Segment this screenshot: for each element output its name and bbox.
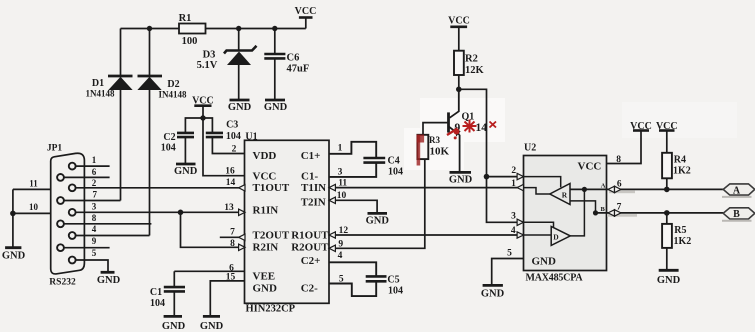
wire: U1 pin 4 to C5 top (329, 251, 376, 276)
wire: U1 pin 1 to C4 top (329, 142, 376, 157)
node junction on rail at D2 (147, 26, 152, 31)
svg-text:T1OUT: T1OUT (253, 182, 290, 194)
svg-text:D: D (553, 233, 559, 242)
wire: JP1 pin 6 stub (64, 167, 110, 178)
svg-text:VCC: VCC (192, 95, 214, 106)
svg-text:GND: GND (481, 289, 505, 300)
svg-text:C1+: C1+ (301, 150, 321, 162)
ground below U2 pin 5 (481, 285, 505, 299)
svg-text:GND: GND (657, 275, 681, 286)
svg-text:9: 9 (92, 236, 97, 246)
svg-text:R2OUT: R2OUT (291, 242, 329, 254)
zener diode D3 5.1V (197, 29, 257, 100)
svg-text:14: 14 (476, 122, 488, 134)
resistor R1 (179, 13, 206, 47)
svg-text:5.1V: 5.1V (197, 60, 218, 71)
capacitor C5 104 (366, 275, 403, 297)
wire: U1 R2OUT pin 9 to R3 (329, 159, 425, 249)
svg-text:12K: 12K (465, 65, 485, 76)
wire: JP1 pin 7 to diode D1 (64, 190, 121, 201)
wire: JP1 pin 8 stub (64, 213, 151, 224)
VCC symbol above C2/C3 (192, 95, 214, 118)
pin 8 arrow R2IN (239, 244, 245, 250)
svg-text:GND: GND (97, 275, 121, 286)
svg-text:B: B (601, 206, 606, 213)
svg-text:C5: C5 (387, 275, 399, 286)
svg-text:R2: R2 (465, 54, 478, 65)
wire: U2 RE pin 2 to R enable (524, 177, 561, 188)
svg-text:C2+: C2+ (301, 255, 321, 267)
svg-text:T1IN: T1IN (301, 182, 326, 194)
svg-text:GND: GND (162, 321, 186, 332)
wire: JP1 shell pin 10 (13, 202, 51, 213)
svg-text:GND: GND (174, 166, 198, 177)
wire: U1 VEE pin 6 to C1 (174, 264, 244, 274)
wire: R3 top to Q1 base (423, 123, 447, 135)
U2 pin 2 arrow (517, 173, 523, 179)
svg-text:13: 13 (224, 203, 234, 213)
terminal B (722, 208, 755, 221)
svg-text:104: 104 (388, 167, 403, 178)
U1 pin labels left column (253, 150, 290, 295)
wire: R lower input to B line (570, 201, 596, 213)
svg-text:C1-: C1- (301, 171, 318, 183)
wire: JP1 pin 1 stub (76, 155, 110, 166)
svg-text:5: 5 (507, 249, 512, 259)
svg-text:4: 4 (92, 224, 97, 234)
svg-text:VEE: VEE (253, 271, 276, 283)
wire: VCC node to U1 pin 16 (203, 118, 245, 176)
svg-text:C2-: C2- (301, 283, 318, 295)
wire: U1 T1IN pin 11 to U2 RO pin 1 (329, 179, 524, 189)
node junction B line and R5 (664, 210, 670, 216)
svg-text:11: 11 (29, 178, 38, 188)
wire: top power rail from D1 to VCC corner (121, 18, 306, 29)
svg-text:1: 1 (92, 155, 97, 165)
wire: U1 GND pin 15 to ground (210, 273, 244, 316)
svg-text:1N4148: 1N4148 (86, 89, 115, 99)
svg-text:100: 100 (182, 36, 198, 47)
wire: R1IN node down to U1 R2IN pin 8 (181, 212, 240, 247)
svg-text:15: 15 (226, 273, 236, 283)
ground below R5 (657, 270, 681, 286)
capacitor C2 104 (161, 132, 194, 164)
wire: U2 DE pin 3 to D enable (524, 222, 554, 227)
U2 pin 1 label and arrow (511, 179, 523, 191)
wire: B line from pin 7 to terminal B (596, 212, 724, 214)
svg-text:C6: C6 (287, 53, 300, 64)
svg-text:GND: GND (366, 216, 390, 227)
terminal A (722, 184, 755, 197)
ground below Q1 emitter (449, 172, 473, 185)
node junction A line and D output (582, 187, 587, 192)
svg-text:GND: GND (200, 321, 224, 332)
wire: D output up to A line (570, 189, 584, 236)
svg-text:VCC: VCC (295, 6, 317, 17)
svg-text:10: 10 (337, 191, 347, 201)
ground below D3 (228, 100, 252, 113)
svg-text:104: 104 (226, 131, 241, 142)
svg-text:4: 4 (338, 251, 343, 261)
resistor R5 1K2 (662, 213, 691, 248)
svg-text:GND: GND (2, 251, 26, 262)
svg-text:14: 14 (226, 178, 236, 188)
ground below U1 pin 15 (200, 316, 224, 332)
VCC symbol above U2 pin 8 (630, 121, 652, 132)
diode D1 1N4148 (86, 29, 133, 201)
node junction shell wires (10, 211, 16, 217)
svg-text:5: 5 (339, 275, 344, 285)
svg-text:D2: D2 (167, 79, 179, 90)
wire: JP1 shell pin 11 (13, 178, 51, 189)
pin 13 arrow R1IN (239, 209, 245, 215)
wire: U1 T2IN pin 10 to ground (329, 191, 377, 213)
wire: U2 GND pin 5 to ground (492, 249, 524, 285)
svg-text:GND: GND (253, 283, 278, 295)
svg-text:3: 3 (511, 212, 516, 222)
U2 pin 7 label and arrow (607, 203, 637, 217)
wire: U2 DI pin 4 to D input (524, 234, 552, 236)
svg-text:D3: D3 (203, 50, 216, 61)
JP1 pin 8 circle (57, 220, 64, 227)
svg-text:R5: R5 (674, 225, 686, 236)
svg-text:R1: R1 (179, 13, 192, 24)
JP1 pin 1 circle (69, 163, 76, 170)
node junction on rail at C6 (272, 26, 277, 31)
svg-text:GND: GND (532, 256, 557, 268)
svg-text:GND: GND (264, 102, 288, 113)
svg-text:12: 12 (339, 226, 349, 236)
red annotation 9014 over Q1 (447, 120, 496, 140)
svg-text:C2: C2 (163, 132, 175, 143)
wire: R4 to A line (666, 178, 668, 189)
svg-text:U1: U1 (245, 132, 257, 143)
svg-text:VCC: VCC (253, 171, 277, 183)
ground below C2 (174, 164, 198, 177)
svg-text:2: 2 (232, 145, 237, 155)
resistor R4 1K2 (662, 153, 691, 179)
svg-text:8: 8 (616, 155, 621, 165)
svg-text:R3: R3 (429, 135, 440, 145)
node junction enable to RE pin 2 (484, 174, 490, 180)
wire: JP1 pin 2 to U1 T1OUT pin 14 (76, 178, 240, 188)
resistor R2 12K (454, 51, 485, 76)
svg-text:8: 8 (230, 239, 235, 249)
wire: VCC node to C3 (203, 118, 212, 133)
wire: JP1 pin 3 to U1 R1IN pin 13 (76, 202, 239, 213)
capacitor C6 47uF (264, 29, 309, 100)
svg-text:R2IN: R2IN (253, 242, 279, 254)
svg-text:9: 9 (338, 239, 343, 249)
U1 pin labels right column (291, 150, 329, 295)
wire: U2 VCC pin 8 to VCC (607, 131, 642, 165)
svg-text:RS232: RS232 (49, 278, 76, 288)
JP1 pin 4 circle (69, 232, 76, 239)
U2 pin 6 label and arrow (608, 180, 635, 194)
svg-text:VDD: VDD (253, 150, 277, 162)
op IC U1 HIN232CP box (245, 140, 330, 303)
svg-text:Q1: Q1 (462, 112, 475, 123)
wire: R2 bottom to collector node (458, 75, 460, 89)
IC U2 MAX485CPA box (524, 156, 607, 271)
VCC symbol above R2 (448, 16, 470, 51)
svg-text:4: 4 (511, 226, 516, 236)
VCC symbol above R4 (656, 121, 678, 153)
U2 pin 3 label and arrow (511, 212, 523, 226)
svg-text:VCC: VCC (448, 16, 470, 27)
pin 14 arrow T1OUT (239, 185, 245, 191)
ground left of JP1 (2, 248, 26, 262)
node junction on R1IN wire (178, 210, 184, 216)
svg-text:16: 16 (225, 166, 235, 176)
capacitor C3 104 (206, 120, 241, 143)
JP1 pin 7 circle (57, 197, 64, 204)
svg-text:IN4148: IN4148 (158, 90, 187, 100)
svg-text:104: 104 (150, 298, 165, 309)
diode D2 1N4148 (138, 29, 187, 236)
wire: shell pins down to ground (12, 189, 14, 247)
wire: C3 to U1 pin 2 VDD (212, 137, 244, 153)
svg-text:HIN232CP: HIN232CP (246, 304, 296, 315)
receiver buffer R inside U2 (550, 184, 570, 205)
pin 7 arrow T2OUT (239, 234, 245, 240)
ground below U1 pin 10 (366, 213, 390, 226)
node junction on rail at D3 (236, 26, 241, 31)
svg-text:VCC: VCC (630, 121, 652, 132)
svg-text:11: 11 (338, 179, 347, 189)
wire: JP1 pin 9 stub (64, 236, 110, 248)
svg-text:T2OUT: T2OUT (253, 230, 290, 242)
wire: JP1 pin 5 to ground (76, 248, 108, 272)
wire: JP1 pin 4 to diode D2 (76, 224, 150, 235)
svg-text:7: 7 (230, 228, 235, 238)
wire: C4 bottom to U1 pin 3 (329, 163, 376, 178)
svg-text:6: 6 (92, 167, 97, 177)
svg-text:C4: C4 (388, 156, 400, 167)
wire: U1 pin 5 to C5 bottom (329, 275, 376, 297)
svg-text:2: 2 (92, 178, 97, 188)
svg-text:A: A (601, 182, 606, 189)
transistor Q1 (449, 89, 475, 172)
ground below C6 (264, 100, 288, 113)
node junction R2 collector (456, 87, 462, 93)
svg-text:T2IN: T2IN (301, 197, 326, 209)
svg-text:A: A (733, 185, 741, 196)
connector JP1 DB9 outline (47, 144, 85, 288)
svg-text:10K: 10K (430, 146, 450, 158)
svg-text:VCC: VCC (578, 161, 602, 173)
svg-text:R4: R4 (674, 155, 686, 166)
svg-text:3: 3 (338, 167, 343, 177)
capacitor C1 104 (150, 271, 185, 316)
svg-text:10: 10 (29, 202, 39, 212)
svg-text:U2: U2 (524, 143, 536, 154)
capacitor C4 104 (363, 156, 403, 178)
pin 9 arrow (329, 245, 335, 251)
svg-text:1K2: 1K2 (674, 236, 692, 247)
svg-text:JP1: JP1 (47, 144, 63, 154)
svg-text:C1: C1 (150, 287, 162, 298)
JP1 pin 9 circle (57, 244, 64, 251)
pin 11 arrow (329, 184, 335, 190)
JP1 pin 3 circle (69, 209, 76, 216)
resistor R3 10K (417, 135, 449, 159)
svg-text:VCC: VCC (656, 121, 678, 132)
svg-text:R: R (562, 190, 568, 199)
svg-text:1: 1 (511, 179, 516, 189)
ground below C1 (162, 316, 186, 332)
VCC symbol top-right of rail (295, 6, 317, 18)
JP1 pin 5 circle (69, 257, 76, 264)
svg-text:7: 7 (93, 190, 98, 200)
svg-text:104: 104 (388, 286, 403, 297)
svg-text:3: 3 (92, 202, 97, 212)
svg-text:1K2: 1K2 (673, 166, 691, 177)
svg-text:MAX485CPA: MAX485CPA (526, 273, 584, 284)
U2 pin 4 label and arrow (511, 226, 524, 238)
wire: A line from R input to terminal A (570, 188, 723, 190)
JP1 pin 2 circle (69, 184, 76, 191)
wire: VCC node to C2 (185, 118, 203, 133)
node junction A line and R4 (664, 187, 670, 193)
svg-text:2: 2 (511, 166, 516, 176)
wire: collector node to U2 enable pins (459, 89, 524, 222)
svg-text:R1IN: R1IN (253, 204, 279, 216)
pin 12 arrow (329, 232, 335, 238)
node junction B line and R input (593, 210, 598, 215)
svg-text:C3: C3 (226, 120, 238, 131)
svg-text:GND: GND (449, 175, 473, 186)
svg-text:47uF: 47uF (287, 64, 310, 75)
wire: U1 R1OUT pin 12 to U2 DI pin 4 (329, 226, 524, 236)
wire: R5 to ground (666, 248, 668, 270)
ground below JP1 pin 5 (97, 272, 121, 286)
JP1 pin 6 circle (57, 174, 64, 181)
svg-text:104: 104 (161, 143, 176, 154)
svg-text:R1OUT: R1OUT (291, 230, 329, 242)
red annotation R3 label (417, 135, 441, 166)
svg-text:5: 5 (92, 248, 97, 258)
wire: U2 RO pin 1 to R output (524, 188, 550, 194)
svg-text:1: 1 (338, 144, 343, 154)
wire: U1 T2OUT pin 7 stub (220, 228, 240, 238)
node VCC junction above U1 (200, 115, 205, 120)
svg-text:D1: D1 (92, 78, 104, 89)
wire: node to U2 RE pin 2 (487, 166, 524, 177)
svg-text:8: 8 (92, 213, 97, 223)
driver buffer D inside U2 (551, 226, 570, 245)
svg-text:B: B (733, 209, 740, 220)
pin 10 arrow (329, 197, 335, 203)
svg-text:GND: GND (228, 102, 252, 113)
